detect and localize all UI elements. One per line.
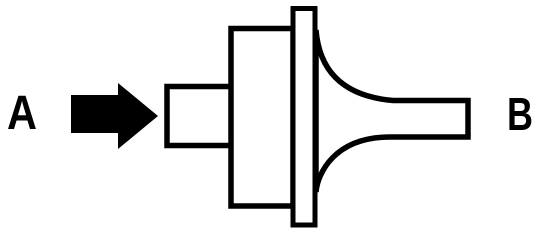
flange (tall thin rectangle) xyxy=(293,9,315,226)
horn outlet (bell curve + tube) xyxy=(316,30,468,192)
svg-text:B: B xyxy=(507,88,533,140)
flow arrow xyxy=(71,83,158,149)
svg-text:A: A xyxy=(7,87,37,140)
inlet tube (rectangle) xyxy=(167,87,232,146)
body (large rectangle) xyxy=(231,29,293,207)
